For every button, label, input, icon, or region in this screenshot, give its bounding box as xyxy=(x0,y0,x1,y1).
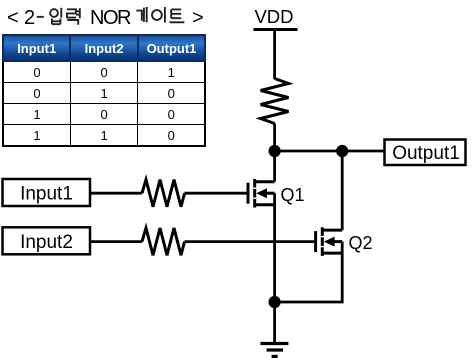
node A (junction dot) xyxy=(269,145,281,157)
svg-text:Input1: Input1 xyxy=(20,184,73,205)
port Input1 xyxy=(3,179,91,206)
title hangul 입 xyxy=(50,8,61,24)
wire node B to Q2 drain xyxy=(341,151,344,230)
wire R3 to Q2 gate xyxy=(185,240,316,243)
svg-text:Q2: Q2 xyxy=(349,233,373,253)
resistor R3 (Input2 series) xyxy=(142,228,185,255)
svg-text:<: < xyxy=(7,7,19,29)
svg-text:NOR: NOR xyxy=(90,7,131,29)
wire node C to ground xyxy=(273,302,276,344)
svg-text:2: 2 xyxy=(24,7,35,29)
svg-text:>: > xyxy=(192,7,204,29)
svg-text:Q1: Q1 xyxy=(281,185,305,205)
wire Q1 source to node C xyxy=(273,193,276,302)
wire R2 to Q1 gate xyxy=(185,192,249,195)
truth table xyxy=(2,34,206,147)
port Input2 xyxy=(3,227,91,254)
wire node A to Q1 drain xyxy=(273,151,276,182)
transistor Q1 (NMOS) xyxy=(248,179,275,208)
title text "< 2-입력 NOR 게이트 >" xyxy=(7,7,204,29)
svg-text:Input2: Input2 xyxy=(20,232,73,253)
node C (junction dot) xyxy=(269,296,281,308)
wire node B to Output1 port xyxy=(342,150,384,153)
wire Input2 to resistor R3 xyxy=(90,240,142,243)
ground xyxy=(260,344,288,357)
svg-text:Output1: Output1 xyxy=(392,143,460,164)
svg-text:VDD: VDD xyxy=(254,6,293,27)
title hangul 이 xyxy=(152,7,165,23)
wire Input1 to resistor R2 xyxy=(90,192,142,195)
title hangul 게 xyxy=(136,7,146,22)
power VDD xyxy=(254,6,298,30)
transistor Q2 (NMOS) xyxy=(316,227,343,256)
title hangul 트 xyxy=(169,9,184,22)
wire R1 to node A xyxy=(273,124,276,152)
node B (junction dot) xyxy=(336,145,348,157)
port Output1 xyxy=(385,140,466,166)
wire Q2 source to node C xyxy=(275,242,343,302)
wire VDD to resistor R1 xyxy=(273,30,276,80)
wire node A to node B xyxy=(275,150,343,153)
resistor R1 (pull-up) xyxy=(261,79,289,124)
title hangul 력 xyxy=(67,8,80,25)
resistor R2 (Input1 series) xyxy=(142,180,185,207)
